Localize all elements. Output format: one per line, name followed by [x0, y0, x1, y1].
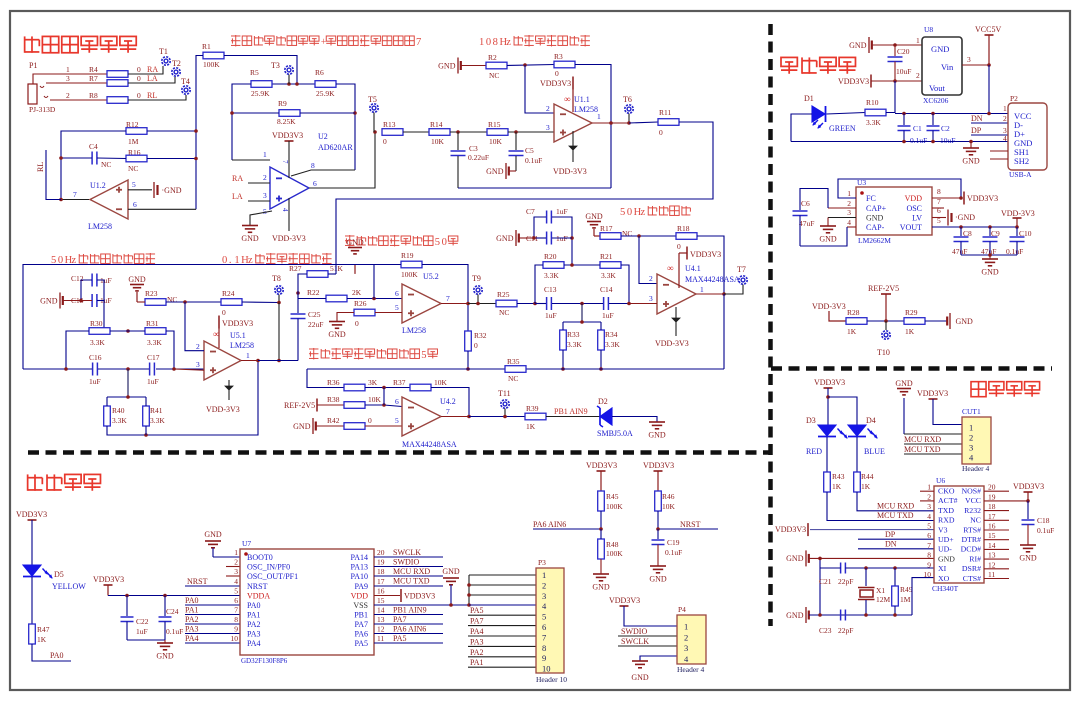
svg-text:PA1: PA1 [470, 658, 484, 667]
net PA0 to U7 pin6 [185, 596, 240, 605]
pin1 output U1.1 [592, 112, 629, 123]
svg-text:LM258: LM258 [574, 105, 598, 114]
svg-text:25.9K: 25.9K [316, 89, 335, 98]
resistor R18 [676, 224, 697, 251]
svg-text:GND: GND [895, 379, 913, 388]
wire R11 right to feedback [336, 122, 713, 265]
svg-text:GND: GND [786, 611, 804, 620]
pin numbers U3 left [847, 189, 851, 227]
net PB1_AIN9 wire [546, 407, 600, 417]
pin 7 label U2 [281, 160, 289, 164]
svg-text:D3: D3 [806, 416, 816, 425]
op-amp U1.2 LM258 [90, 180, 128, 219]
svg-text:R26: R26 [354, 299, 367, 308]
wire D1 to R10 [827, 113, 866, 115]
svg-text:1: 1 [927, 483, 931, 492]
svg-text:VSS: VSS [353, 601, 368, 610]
svg-text:D4: D4 [866, 416, 876, 425]
wire R9 row [232, 112, 355, 114]
capacitor C25 [291, 293, 324, 361]
svg-text:4: 4 [234, 577, 238, 586]
svg-text:5: 5 [395, 303, 399, 312]
svg-text:T6: T6 [623, 95, 632, 104]
test point T9 [472, 274, 482, 304]
wire U8 pin3 [962, 55, 989, 65]
svg-text:25.9K: 25.9K [251, 89, 270, 98]
svg-text:PA3: PA3 [247, 630, 261, 639]
svg-text:R9: R9 [278, 99, 287, 108]
svg-text:0.1uF: 0.1uF [665, 548, 682, 557]
svg-text:GND: GND [442, 567, 460, 576]
wire caps bottom rail [961, 254, 1017, 256]
svg-text:PA5: PA5 [393, 634, 407, 643]
capacitor C24 [159, 596, 184, 641]
svg-text:R13: R13 [383, 120, 396, 129]
test point T1 [159, 47, 170, 65]
svg-text:GND: GND [956, 317, 974, 326]
svg-text:C4: C4 [89, 142, 98, 151]
pin numbers U7 left [231, 548, 239, 643]
svg-text:RED: RED [806, 447, 822, 456]
svg-text:GND: GND [241, 234, 259, 243]
test point T4 [181, 77, 190, 94]
svg-text:C10: C10 [1019, 229, 1032, 238]
power VDD3V3 (CUT1) [917, 389, 962, 425]
svg-text:1K: 1K [526, 422, 536, 431]
net PA1 to P3 pin10 [468, 658, 536, 667]
svg-text:Header 4: Header 4 [677, 665, 705, 674]
svg-text:SWDIO: SWDIO [393, 558, 419, 567]
note 0.1Hz一阶高通滤波器 [222, 253, 332, 266]
title 蓝牙接口 [971, 382, 1040, 397]
svg-text:U4.1: U4.1 [685, 264, 701, 273]
pin number 3 (P1) [66, 74, 70, 83]
svg-text:6: 6 [542, 622, 546, 632]
power VDD3V3 (D5) [16, 510, 47, 565]
capacitor C15 [71, 294, 112, 307]
op-amp U1.1 LM258 [554, 104, 592, 142]
svg-text:51K: 51K [330, 264, 344, 273]
svg-text:PB1: PB1 [354, 611, 368, 620]
svg-text:8: 8 [493, 37, 498, 48]
svg-text:C14: C14 [600, 285, 613, 294]
resistor R46 (vertical) [655, 491, 676, 511]
net SWDIO to P4 [618, 627, 677, 636]
svg-text:X1: X1 [876, 586, 885, 595]
svg-text:RI#: RI# [969, 554, 981, 563]
svg-text:2: 2 [927, 492, 931, 501]
svg-text:R1: R1 [202, 42, 211, 51]
resistor R45 (vertical) [598, 491, 624, 511]
resistor R13 [382, 120, 403, 146]
svg-text:RL: RL [147, 91, 157, 100]
wire VDD row to U7 pin5 [108, 595, 240, 597]
svg-text:5: 5 [542, 612, 546, 622]
svg-text:U4.2: U4.2 [440, 397, 456, 406]
junction U4.2 out [467, 415, 471, 419]
svg-text:GND: GND [648, 431, 666, 440]
svg-text:GND: GND [128, 275, 146, 284]
svg-text:GND: GND [938, 554, 955, 563]
svg-text:R23: R23 [145, 289, 158, 298]
capacitor C7 [526, 207, 568, 224]
svg-text:NC: NC [101, 160, 111, 169]
wire VSS row (U7 pin15) [374, 604, 536, 606]
svg-text:12: 12 [988, 560, 996, 569]
svg-text:6: 6 [937, 206, 941, 215]
wire R2-R3 [507, 65, 554, 66]
svg-text:C7: C7 [526, 207, 535, 216]
svg-text:0: 0 [137, 65, 141, 74]
junction C8 top [959, 225, 963, 229]
svg-text:7: 7 [234, 606, 238, 615]
svg-text:12M: 12M [876, 595, 891, 604]
resistor R42 [327, 416, 372, 429]
junction R9 left [230, 111, 234, 115]
junction C10 top [1015, 225, 1019, 229]
svg-text:0: 0 [355, 319, 359, 328]
svg-text:1: 1 [246, 351, 250, 360]
power VDD3V3 (U7 pin16) [374, 589, 435, 602]
svg-text:R30: R30 [90, 319, 103, 328]
ground port R2 [438, 58, 461, 74]
svg-text:100K: 100K [606, 502, 623, 511]
wire D5 to R47 [31, 577, 33, 624]
svg-text:CAP+: CAP+ [866, 204, 887, 213]
junction Vin node [987, 63, 991, 67]
svg-text:OSC: OSC [906, 204, 922, 213]
junction T3 row [287, 82, 299, 86]
svg-text:13: 13 [988, 551, 996, 560]
svg-text:VDD-3V3: VDD-3V3 [553, 167, 587, 176]
svg-text:R2: R2 [488, 53, 497, 62]
test point T11 [498, 389, 511, 417]
label U1.1 [574, 95, 598, 114]
wire R16 right [147, 158, 196, 160]
svg-text:2: 2 [542, 580, 546, 590]
svg-text:2: 2 [1003, 114, 1007, 123]
capacitor C18 [1022, 501, 1055, 545]
svg-text:GND: GND [592, 583, 610, 592]
ground C19 [649, 566, 667, 584]
wire R41 top [145, 397, 147, 406]
net PA7 (U7 pin13) [374, 615, 443, 624]
svg-text:GND: GND [438, 61, 456, 70]
resistor R39 [525, 404, 546, 431]
svg-text:2: 2 [847, 199, 851, 208]
svg-text:C9: C9 [991, 229, 1000, 238]
resistor R16 [126, 148, 147, 173]
svg-text:LM2662M: LM2662M [858, 236, 891, 245]
svg-text:100K: 100K [401, 270, 418, 279]
junction crystal bottoms [818, 613, 897, 617]
wire pin2 drop U5.1 [185, 302, 204, 351]
svg-text:R10: R10 [866, 98, 879, 107]
svg-text:XO: XO [938, 574, 950, 583]
wire R22 left [298, 293, 326, 299]
svg-text:T10: T10 [877, 348, 890, 357]
junction U2 out / R13 [373, 130, 377, 134]
svg-text:5: 5 [927, 522, 931, 531]
svg-text:10: 10 [231, 634, 239, 643]
junction R23/R24 to pin2 [183, 300, 187, 304]
wire out to R25 [468, 303, 496, 305]
junction R49 top [893, 566, 897, 570]
svg-text:BLUE: BLUE [864, 447, 885, 456]
svg-text:PA7: PA7 [355, 620, 369, 629]
resistor R14 [429, 120, 450, 146]
wire R24 right to T8 [242, 301, 279, 304]
op-amp U5.1 LM258 [204, 341, 241, 380]
svg-text:1K: 1K [847, 327, 857, 336]
svg-text:PA4: PA4 [247, 639, 261, 648]
stubs U6 left pins 1-2 [920, 491, 934, 501]
junction REF divider [884, 319, 888, 323]
svg-text:2: 2 [684, 632, 688, 642]
svg-text:6: 6 [395, 289, 399, 298]
svg-text:4: 4 [281, 208, 289, 212]
svg-text:SWDIO: SWDIO [621, 627, 647, 636]
svg-text:7: 7 [446, 407, 450, 416]
power VDD3V3 (U6 V3) [775, 523, 934, 536]
stub SH2 [990, 158, 1008, 160]
wire GND-R23 [137, 301, 145, 303]
svg-text:R44: R44 [861, 472, 874, 481]
pin7 output U4.2 [441, 416, 469, 418]
net DN label [971, 114, 1008, 123]
svg-text:MCU RXD: MCU RXD [877, 502, 914, 511]
ground P4 [631, 656, 677, 682]
svg-text:VDD3V3: VDD3V3 [967, 194, 998, 203]
svg-text:XI: XI [938, 564, 947, 573]
power VCC5V [975, 25, 1001, 65]
svg-text:5: 5 [620, 207, 625, 218]
test point T2 [172, 59, 181, 76]
svg-text:AD620AR: AD620AR [318, 143, 353, 152]
svg-text:DTR#: DTR# [962, 535, 982, 544]
svg-text:NC: NC [167, 295, 177, 304]
ground port C15 [40, 293, 92, 309]
net REF-2V5 (summing) [284, 399, 344, 412]
svg-text:VDD3V3: VDD3V3 [643, 461, 674, 470]
junction R19 left drop [372, 297, 376, 301]
junction C17 right [172, 367, 176, 371]
wire R28-R29 [867, 320, 904, 322]
svg-text:VDD-3V3: VDD-3V3 [272, 234, 306, 243]
svg-text:C5: C5 [525, 146, 534, 155]
net SWCLK to P4 [618, 637, 677, 646]
svg-text:GND: GND [585, 212, 603, 221]
wire VSS to P3 pin4 [469, 604, 536, 606]
wire R18 right feedback [697, 236, 724, 294]
wire R38 right to pin6 [365, 397, 402, 407]
svg-text:3K: 3K [368, 378, 378, 387]
wire inverting input U1.1 [525, 65, 554, 113]
wire R12 row left [61, 131, 126, 199]
wire R10 right up [886, 81, 895, 113]
svg-text:VDD3V3: VDD3V3 [222, 319, 253, 328]
svg-text:R31: R31 [146, 319, 159, 328]
svg-text:LM258: LM258 [230, 341, 254, 350]
svg-text:100K: 100K [203, 60, 220, 69]
power VDD3V3 (U6 VCC) [1013, 482, 1044, 501]
wire pin3 U4.1 [629, 294, 657, 304]
stub U3 pin7 [932, 207, 944, 209]
junction C2 top [931, 112, 935, 116]
svg-text:0: 0 [137, 91, 141, 100]
resistor R24 [221, 289, 242, 317]
label PJ-313D [29, 105, 56, 114]
svg-text:R33: R33 [567, 330, 580, 339]
svg-text:MAX44248ASA: MAX44248ASA [685, 275, 740, 284]
resistor R11 [658, 108, 679, 137]
junction R12/bus [194, 129, 198, 133]
capacitor C3 [451, 132, 490, 188]
net PA0 stub [32, 644, 71, 661]
op-amp U5.2 LM258 [402, 284, 441, 323]
resistor R35 [505, 357, 526, 383]
svg-text:5: 5 [132, 180, 136, 189]
svg-text:Vin: Vin [941, 62, 954, 72]
svg-text:DSR#: DSR# [962, 564, 981, 573]
ground above R17 [585, 212, 603, 236]
junction C25 top [296, 291, 300, 295]
net DP to U6 [858, 530, 934, 539]
svg-text:17: 17 [988, 512, 996, 521]
svg-text:VDD3V3: VDD3V3 [16, 510, 47, 519]
svg-text:NC: NC [622, 229, 632, 238]
svg-text:12: 12 [377, 625, 385, 634]
junction GND tap P2 [969, 140, 973, 144]
op-amp U2 AD620AR [270, 167, 309, 209]
svg-text:U6: U6 [936, 476, 945, 485]
resistor R7 [89, 74, 158, 86]
svg-text:PA4: PA4 [470, 627, 484, 636]
junction R20/R21 [570, 263, 574, 267]
net MCU_TXD (U7 pin17) [374, 577, 443, 587]
test point T3 [271, 61, 293, 84]
svg-text:T1: T1 [159, 47, 168, 56]
svg-text:VCC5V: VCC5V [975, 25, 1001, 34]
svg-text:VDD-3V3: VDD-3V3 [206, 405, 240, 414]
svg-text:VDD-3V3: VDD-3V3 [812, 302, 846, 311]
wire R1 left + vertical bus x196 [196, 56, 203, 210]
junction C15 left [79, 299, 83, 303]
resistor R30 [89, 319, 110, 347]
pin2 wire U1.1 [546, 104, 550, 113]
svg-text:GND: GND [786, 554, 804, 563]
svg-text:1uF: 1uF [136, 627, 148, 636]
svg-text:22uF: 22uF [308, 320, 323, 329]
svg-text:R40: R40 [112, 406, 125, 415]
svg-text:VDD3V3: VDD3V3 [917, 389, 948, 398]
resistor R6 [315, 68, 336, 98]
pin number 1 (P1) [66, 65, 70, 74]
svg-text:NRST: NRST [247, 582, 268, 591]
wire R20-R21 [564, 264, 600, 266]
svg-text:PJ-313D: PJ-313D [29, 105, 56, 114]
wire R5-R6 row with T3 [272, 83, 315, 85]
LED D3 RED [806, 416, 847, 456]
ground port crystal [786, 607, 912, 623]
note 反相加法器 信号放大5倍 [309, 348, 437, 361]
ground D2 [648, 422, 666, 440]
wire R17 right [621, 235, 676, 237]
wire caps bottom to GND [127, 640, 165, 643]
svg-text:18: 18 [988, 502, 996, 511]
svg-text:0: 0 [442, 237, 447, 248]
wire R21 right drop [621, 265, 629, 304]
power VDD3V3 (R46) [643, 461, 674, 491]
svg-text:16: 16 [988, 522, 996, 531]
wire U3 pin5 VOUT rail [932, 226, 1017, 228]
svg-text:4: 4 [927, 512, 931, 521]
capacitor C14 [600, 285, 614, 320]
svg-text:CH340T: CH340T [932, 584, 959, 593]
junction R9 right [353, 111, 357, 115]
junction C22 top [125, 594, 129, 598]
svg-text:R3: R3 [554, 52, 563, 61]
svg-text:VDD3V3: VDD3V3 [690, 250, 721, 259]
svg-text:5: 5 [234, 587, 238, 596]
junction P3 bus [467, 583, 471, 607]
svg-text:18: 18 [377, 567, 385, 576]
net RA to U2 pin2 [232, 173, 270, 183]
wire R1 right to T3 node [224, 56, 297, 85]
opamp infinity mark U4.1 [667, 263, 673, 273]
svg-text:R14: R14 [430, 120, 443, 129]
svg-text:R32: R32 [474, 331, 487, 340]
svg-text:Header 4: Header 4 [962, 464, 990, 473]
wire P1 pin2 to R8 [50, 99, 107, 101]
svg-text:T2: T2 [172, 59, 181, 68]
junction PA6 divider [599, 527, 603, 531]
svg-text:15: 15 [377, 596, 385, 605]
resistor R38 [327, 395, 382, 408]
svg-text:LM258: LM258 [402, 326, 426, 335]
svg-text:SWCLK: SWCLK [393, 548, 421, 557]
svg-text:GND: GND [931, 44, 949, 54]
label U2 [318, 132, 353, 152]
ground port C7/C11 [496, 230, 534, 246]
svg-text:8.25K: 8.25K [277, 117, 296, 126]
svg-text:VDD3V3: VDD3V3 [814, 378, 845, 387]
net LA to U2 pin3 [232, 191, 270, 201]
svg-text:C8: C8 [963, 229, 972, 238]
wire C7 right drop [552, 217, 572, 265]
resistor R9 [277, 99, 300, 126]
pin 6 wire U1.2 [128, 200, 196, 209]
svg-text:C18: C18 [1037, 516, 1050, 525]
resistor R33 (vertical) [560, 322, 583, 350]
wire R22 right to pin6 [347, 298, 402, 300]
svg-text:GND: GND [486, 167, 504, 176]
svg-text:15: 15 [988, 531, 996, 540]
svg-text:R25: R25 [497, 290, 510, 299]
wire R43 to U6 pin4 [827, 492, 934, 521]
svg-text:3.3K: 3.3K [866, 118, 881, 127]
svg-text:22pF: 22pF [838, 577, 853, 586]
ground P2 [962, 142, 980, 166]
note 50Hz带阻滤波 [620, 206, 690, 218]
junction R16/bus [194, 157, 198, 161]
svg-text:GND: GND [204, 530, 222, 539]
svg-text:C24: C24 [166, 607, 179, 616]
svg-text:8: 8 [542, 643, 546, 653]
junction C24 top [163, 594, 167, 598]
svg-text:3: 3 [196, 360, 200, 369]
wire R3 right feedback [575, 65, 611, 189]
